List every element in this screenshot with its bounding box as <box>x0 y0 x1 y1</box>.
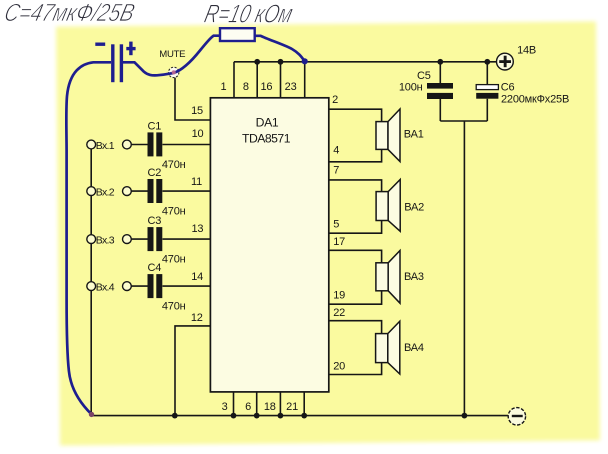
wire: blue capacitor to MUTE <box>123 62 174 75</box>
svg-text:470н: 470н <box>162 301 186 313</box>
svg-text:3: 3 <box>222 401 228 413</box>
capacitor C3 470н <box>148 215 186 266</box>
wire: MUTE pad to pin 15 <box>175 78 210 120</box>
svg-text:8: 8 <box>243 81 249 93</box>
svg-text:Вх.1: Вх.1 <box>96 140 115 152</box>
wire: pin 12 to ground <box>175 326 210 416</box>
wire: blue resistor to bus <box>255 36 305 62</box>
speaker BA4 <box>376 321 424 374</box>
svg-text:21: 21 <box>286 401 298 413</box>
svg-text:6: 6 <box>245 401 251 413</box>
wire: pin 5 to BA2 <box>329 221 382 234</box>
svg-text:23: 23 <box>285 81 297 93</box>
node: junction pin 6 ground <box>254 413 260 419</box>
wire: top pin stub 8 <box>256 62 258 98</box>
svg-text:Вх.2: Вх.2 <box>96 187 115 199</box>
wire: pin 17 to BA3 <box>329 250 382 262</box>
wire: top pin stub 16 <box>280 62 282 98</box>
wire: pin 11 net <box>131 190 210 192</box>
svg-text:R=10 кОм: R=10 кОм <box>202 0 296 28</box>
wire: C5 C6 common to ground <box>440 121 487 416</box>
svg-text:C3: C3 <box>148 215 162 227</box>
wire: bottom pin stub 6 <box>256 392 258 416</box>
svg-text:16: 16 <box>260 81 272 93</box>
connector Вх.1 <box>87 140 132 152</box>
svg-text:11: 11 <box>191 176 202 188</box>
label: handwritten C=47мкФ/25В <box>2 0 138 27</box>
node: junction C5C6 ground <box>462 413 468 419</box>
svg-text:TDA8571: TDA8571 <box>242 132 291 146</box>
node: junction pin 3 ground <box>231 413 237 419</box>
wire: input ground rail <box>90 145 92 416</box>
svg-text:С=47мкФ/25В: С=47мкФ/25В <box>2 0 138 27</box>
wire: blue MUTE to resistor <box>174 36 221 73</box>
svg-text:19: 19 <box>333 290 345 302</box>
svg-text:18: 18 <box>264 401 276 413</box>
svg-text:12: 12 <box>191 312 203 324</box>
svg-text:470н: 470н <box>162 206 186 218</box>
capacitor C1 470н <box>148 121 186 172</box>
svg-text:2200мкФх25В: 2200мкФх25В <box>501 94 569 106</box>
wire: ground bottom bus <box>91 415 508 417</box>
capacitor C4 470н <box>148 262 186 313</box>
resistor R 10 кОм <box>220 28 255 41</box>
capacitor C6 2200мкФх25В electrolytic <box>476 82 569 106</box>
svg-text:ВА1: ВА1 <box>404 129 424 141</box>
speaker BA1 <box>376 109 424 162</box>
svg-text:2: 2 <box>332 94 338 106</box>
node: blue wire ground junction <box>89 412 94 417</box>
node: blue junction at pin 23 stub <box>302 58 308 64</box>
speaker BA3 <box>376 251 424 304</box>
wire: C6 leads <box>486 62 488 121</box>
svg-text:ВА3: ВА3 <box>404 271 424 283</box>
svg-text:5: 5 <box>333 218 339 230</box>
wire: top pin stub 1 <box>233 62 235 98</box>
node: junction top bus pin 8 <box>254 59 260 65</box>
wire: pin 2 to BA1 <box>329 109 382 121</box>
node: junction C5 top <box>437 59 443 65</box>
svg-text:13: 13 <box>191 223 203 235</box>
wire: bottom pin stub 3 <box>233 392 235 416</box>
svg-text:Вх.3: Вх.3 <box>96 235 115 247</box>
op-amp U DA1 TDA8571 IC body <box>210 98 328 392</box>
node: junction pin 18 ground <box>278 413 284 419</box>
svg-text:1: 1 <box>221 81 227 93</box>
svg-text:100н: 100н <box>399 82 423 94</box>
svg-text:10: 10 <box>192 128 204 140</box>
wire: pin 22 to BA4 <box>329 321 382 334</box>
wire: +14V top bus <box>234 61 496 63</box>
svg-text:17: 17 <box>333 236 345 248</box>
svg-text:14В: 14В <box>517 45 536 57</box>
svg-text:20: 20 <box>333 360 345 372</box>
MUTE pad <box>159 49 185 78</box>
svg-text:470н: 470н <box>162 254 186 266</box>
node: junction pin 21 ground <box>301 413 307 419</box>
label: handwritten R=10 кОм <box>202 0 296 28</box>
wire: pin 20 to BA4 <box>329 363 382 375</box>
wire: blue ground return left side <box>66 62 111 414</box>
svg-text:MUTE: MUTE <box>159 49 185 60</box>
svg-text:DA1: DA1 <box>256 116 279 130</box>
wire: pin 10 net <box>131 144 210 146</box>
svg-text:7: 7 <box>333 165 339 177</box>
svg-text:Вх.4: Вх.4 <box>96 282 115 294</box>
wire: bottom pin stub 18 <box>279 392 281 416</box>
capacitor C2 470н <box>148 167 186 218</box>
capacitor C5 100н <box>399 70 453 99</box>
node: junction top bus pin 16 <box>278 59 284 65</box>
wire: pin 13 net <box>131 238 210 240</box>
wire: top pin stub 23 <box>304 62 306 98</box>
svg-text:14: 14 <box>191 271 203 283</box>
wire: pin 7 to BA2 <box>329 180 382 192</box>
wire: pin 4 to BA1 <box>329 149 382 161</box>
svg-text:C1: C1 <box>148 121 162 133</box>
node: MUTE pad center dot <box>172 70 176 74</box>
node: junction C6 top <box>484 59 490 65</box>
svg-text:4: 4 <box>333 145 339 157</box>
svg-text:ВА4: ВА4 <box>404 342 424 354</box>
connector Вх.3 <box>87 235 132 247</box>
wire: C5 leads <box>439 62 441 121</box>
svg-text:C6: C6 <box>501 82 515 94</box>
svg-text:C2: C2 <box>148 167 162 179</box>
svg-text:22: 22 <box>333 307 345 319</box>
capacitor C 47мкФ/25В electrolytic <box>95 42 135 83</box>
ground terminal <box>508 408 525 425</box>
svg-text:C5: C5 <box>417 70 431 82</box>
svg-text:15: 15 <box>191 105 203 117</box>
svg-text:ВА2: ВА2 <box>404 201 424 213</box>
speaker BA2 <box>376 180 424 232</box>
wire: pin 14 net <box>131 285 210 287</box>
node: junction pin 12 ground <box>172 413 178 419</box>
svg-text:470н: 470н <box>162 159 186 171</box>
wire: pin 19 to BA3 <box>329 291 382 304</box>
connector Вх.4 <box>87 282 132 294</box>
+14V supply terminal <box>497 45 537 71</box>
svg-text:C4: C4 <box>148 262 162 274</box>
connector Вх.2 <box>87 187 132 199</box>
wire: bottom pin stub 21 <box>303 392 305 416</box>
